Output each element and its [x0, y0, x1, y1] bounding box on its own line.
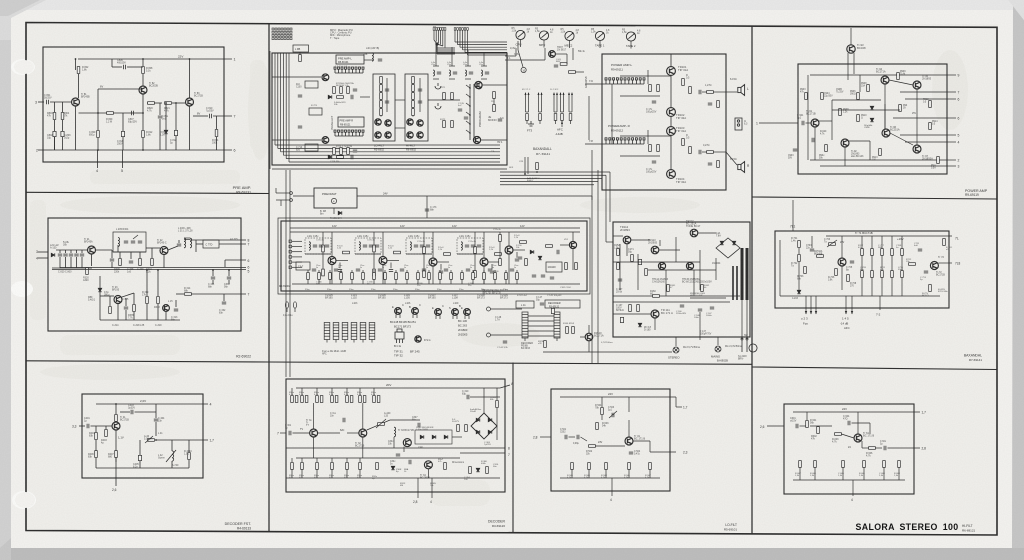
- resistor: [443, 121, 446, 128]
- wire: [861, 441, 863, 448]
- tuned circuit cluster: [355, 238, 381, 254]
- wire: [318, 432, 340, 434]
- wire: [572, 48, 574, 60]
- capacitor: [550, 277, 554, 279]
- resistor R-504: [601, 408, 604, 415]
- resistor R-502: [589, 445, 596, 448]
- punch hole: [14, 60, 34, 74]
- capacitor C-601: [796, 424, 798, 428]
- wire: [526, 111, 529, 113]
- resistor: [322, 245, 325, 252]
- resistor: [499, 235, 502, 242]
- wire: [650, 451, 676, 453]
- baxandal panel box: [775, 231, 949, 308]
- wire drop: [451, 47, 453, 66]
- capacitor: [351, 155, 353, 159]
- wire mid: [832, 109, 900, 111]
- wire: [516, 252, 518, 258]
- wire: [70, 257, 72, 268]
- wire: [613, 261, 700, 263]
- wire: [817, 425, 819, 428]
- rail wire: [500, 174, 606, 176]
- resistor: [825, 145, 828, 152]
- capacitor: [652, 161, 656, 163]
- switch contact: [466, 103, 470, 106]
- capacitor: [518, 257, 522, 259]
- wire: [416, 314, 418, 318]
- wire: [175, 300, 177, 307]
- coil: [359, 242, 360, 250]
- wire: [452, 315, 454, 319]
- wire: [814, 467, 816, 480]
- resistor tone 2b: [881, 271, 884, 278]
- wire rail 7: [460, 452, 505, 454]
- coil L-205: [118, 238, 120, 247]
- capacitor: [418, 101, 422, 103]
- transistor Tr-3x BC171B: [310, 429, 318, 437]
- arrow: [568, 92, 570, 95]
- resistor R-603: [835, 433, 842, 436]
- resistor: [505, 273, 508, 280]
- resistor: [350, 396, 353, 403]
- resistor: [474, 271, 477, 278]
- connector comb R: [334, 130, 364, 136]
- resistor R-706: [835, 269, 838, 276]
- resistor: [423, 247, 426, 254]
- wire: [351, 279, 353, 284]
- rail wire: [500, 171, 610, 173]
- wire: [505, 270, 507, 273]
- capacitor: [325, 245, 329, 247]
- capacitor C-502: [577, 435, 579, 439]
- wire: [871, 236, 873, 249]
- wire: [393, 437, 395, 448]
- capacitor: [466, 269, 470, 271]
- capacitor C-308: [129, 261, 133, 263]
- wire: [861, 277, 863, 296]
- wire: [472, 279, 474, 284]
- resistor R-60x: [863, 461, 866, 468]
- module 410: [305, 81, 318, 88]
- scan border bottom: [0, 548, 1024, 560]
- wire left vertical: [807, 75, 809, 160]
- harness wire B: [467, 30, 469, 55]
- wire: [412, 115, 414, 116]
- capacitor: [420, 245, 424, 247]
- wire: [142, 113, 144, 130]
- wire: [436, 44, 438, 50]
- resistor R-153: [572, 327, 575, 334]
- switch wire: [568, 93, 570, 112]
- resistor R-146: [566, 327, 569, 334]
- module PRE AMP-R: [338, 117, 364, 127]
- resistor tone 0: [861, 249, 864, 256]
- capacitor C-401: [87, 424, 89, 428]
- wire: [659, 240, 661, 246]
- wire: [395, 314, 397, 318]
- resistor R-703: [804, 267, 807, 274]
- wire: [461, 270, 463, 273]
- resistor 1,27Ω: [707, 91, 714, 94]
- resistor ladder: [412, 101, 415, 108]
- speaker R: [738, 162, 745, 173]
- wire: [299, 52, 301, 55]
- wire: [569, 111, 572, 113]
- wire: [798, 248, 800, 254]
- wire: [556, 53, 567, 55]
- wire: [439, 279, 441, 284]
- resistor: [701, 285, 704, 292]
- wire: [857, 412, 859, 434]
- transistor Tr-72: [930, 262, 938, 270]
- capacitor: [312, 269, 316, 271]
- wire: [136, 112, 143, 114]
- diode preomat: [338, 211, 342, 215]
- potentiometer TAPE 2: [626, 32, 635, 41]
- wire: [585, 143, 606, 145]
- scan border top: [0, 0, 1024, 10]
- transistor TR114: [658, 262, 665, 269]
- wire: [631, 239, 650, 241]
- resistor: [682, 79, 685, 86]
- wire: [483, 266, 485, 284]
- capacitor: [638, 259, 641, 264]
- harness wire B: [457, 30, 459, 45]
- wire: [464, 315, 466, 319]
- wire: [428, 99, 460, 101]
- capacitor C-63: [554, 65, 558, 67]
- module LO-FILT: [373, 74, 395, 141]
- wire: [889, 80, 913, 85]
- wire: [831, 100, 833, 140]
- diode Z-30x: [391, 466, 395, 470]
- wire bundle h: [281, 151, 500, 153]
- wire: [157, 304, 159, 320]
- wire 22V rail: [78, 58, 232, 60]
- harness wire B: [454, 30, 456, 42]
- wire: [798, 262, 800, 290]
- wire bundle: [285, 53, 287, 159]
- wire: [888, 447, 921, 449]
- wire: [190, 239, 246, 241]
- wire: [70, 250, 72, 253]
- knot fan: [434, 40, 437, 44]
- wire: [841, 266, 843, 290]
- capacitor C-332: [222, 302, 226, 304]
- resistor R-702: [798, 255, 801, 262]
- wire: [832, 99, 881, 101]
- capacitor: [426, 245, 430, 247]
- wire: [613, 313, 651, 315]
- resistor: [569, 114, 572, 121]
- wire: [938, 262, 952, 264]
- resistor ladder: [412, 109, 415, 116]
- wire 20V rail: [296, 387, 500, 389]
- switch wire: [560, 93, 562, 112]
- wire: [440, 264, 442, 270]
- resistor R-507: [649, 463, 652, 470]
- wire bottom rail: [780, 295, 940, 297]
- wire bundle h: [286, 158, 500, 160]
- resistor: [139, 259, 142, 266]
- capacitor C-149: [551, 308, 554, 313]
- diode ZF-6,8: [638, 323, 642, 327]
- capacitor: [409, 460, 411, 464]
- wire: [387, 260, 399, 262]
- capacitor: [485, 72, 489, 74]
- wire: [698, 232, 716, 234]
- punch hole: [11, 281, 33, 297]
- wire: [142, 138, 144, 150]
- transistor Tr-41 BC171B: [112, 422, 120, 430]
- circled ref 10: [521, 67, 526, 72]
- wire: [491, 334, 523, 336]
- wire: [465, 78, 471, 80]
- resistor: [331, 396, 334, 403]
- harness wire B: [459, 30, 461, 47]
- contact circle: [487, 307, 491, 311]
- wire: [292, 251, 302, 253]
- capacitor: [503, 341, 507, 343]
- wire: [360, 96, 370, 98]
- resistor: [897, 73, 900, 80]
- wire rail2: [290, 231, 580, 233]
- capacitor: [418, 89, 422, 91]
- resistor: [657, 145, 660, 152]
- wire: [585, 83, 606, 85]
- resistor: [929, 123, 932, 130]
- wire: [139, 440, 141, 455]
- wire stub: [500, 385, 510, 388]
- capacitor: [298, 126, 302, 128]
- wire: [406, 279, 408, 284]
- wire: [163, 255, 165, 269]
- resistor: [340, 87, 343, 94]
- wire: [346, 469, 348, 478]
- wire: [293, 432, 310, 434]
- wire: [105, 426, 107, 429]
- wire: [717, 337, 719, 345]
- wire: [505, 279, 507, 284]
- wire: [647, 130, 649, 144]
- wire: [767, 425, 784, 427]
- wire: [468, 315, 470, 319]
- resistor: [649, 145, 652, 152]
- punch hole: [15, 492, 35, 508]
- capacitor: [918, 249, 922, 251]
- capacitor C-83: [74, 254, 78, 256]
- resistor tone 3b: [891, 271, 894, 278]
- wire: [806, 412, 808, 420]
- resistor: [474, 247, 477, 254]
- resistor: [333, 87, 336, 94]
- wire bundle h: [283, 154, 500, 156]
- wire: [331, 469, 333, 478]
- capacitor C-803: [61, 131, 64, 136]
- capacitor trimmer: [131, 241, 135, 243]
- switch wire: [538, 93, 540, 112]
- lamp ML3 STEREO: [673, 347, 679, 353]
- wire: [423, 232, 425, 247]
- capacitor: [710, 307, 714, 309]
- wire: [380, 91, 382, 92]
- capacitor: [652, 101, 656, 103]
- capacitor: [708, 163, 712, 165]
- transistor TR117 BC251A: [690, 229, 698, 237]
- wire: [633, 440, 650, 442]
- transistor Tr-22 BF245C: [160, 247, 168, 255]
- wire: [605, 175, 607, 190]
- resistor: [929, 101, 932, 108]
- resistor: [316, 396, 319, 403]
- diode bridge1: [476, 418, 480, 422]
- capacitor C-808: [158, 116, 162, 118]
- wire: [155, 404, 157, 418]
- wire: [863, 467, 865, 480]
- wire: [611, 478, 613, 496]
- resistor: [376, 463, 379, 470]
- wire: [316, 388, 318, 395]
- wire: [518, 50, 523, 67]
- resistor: [359, 463, 362, 470]
- wire: [861, 255, 863, 270]
- wire: [871, 255, 873, 270]
- wire: [195, 240, 197, 252]
- power amp panel box: [798, 64, 947, 174]
- junction: [97, 149, 99, 151]
- wire: [142, 59, 144, 66]
- wire: [159, 103, 161, 115]
- resistor: [395, 273, 398, 280]
- node 5: [947, 134, 956, 136]
- lo-filt panel box: [551, 389, 670, 491]
- dashed matrix box: [415, 430, 452, 444]
- module DECODER R3-69132: [545, 300, 580, 308]
- divider right row 2: [752, 367, 997, 370]
- junction: [115, 403, 117, 405]
- wire: [318, 270, 320, 273]
- power amp block box: [602, 54, 726, 190]
- capacitor: [541, 275, 545, 277]
- coil: [461, 242, 462, 250]
- transistor preamp L: [322, 74, 329, 81]
- terminal arrow: [805, 311, 807, 314]
- decoder-fst panel box: [82, 394, 203, 478]
- wire: [380, 115, 382, 116]
- wire: [113, 251, 146, 253]
- coil: [410, 242, 411, 250]
- wire: [516, 270, 518, 273]
- wire: [65, 257, 67, 268]
- resistor: [295, 396, 298, 403]
- wire: [881, 277, 883, 296]
- switch contact: [466, 94, 470, 97]
- module C-710: [305, 144, 318, 151]
- capacitor C90x: [793, 149, 797, 151]
- wire: [395, 279, 397, 284]
- capacitor C-305: [110, 259, 114, 261]
- resistor: [565, 263, 568, 270]
- transistor TR107: [429, 258, 437, 266]
- connector comb amp L: [605, 78, 645, 84]
- transistor TR101 TIP 31A: [667, 67, 676, 76]
- wire: [329, 279, 331, 284]
- transistor Tr-81 BF245B: [72, 98, 80, 106]
- terminal arrow: [815, 311, 817, 314]
- wire: [380, 99, 382, 100]
- wire: [362, 270, 364, 273]
- pre-amp panel box: [43, 47, 224, 162]
- wire: [99, 276, 101, 320]
- wire: [613, 235, 623, 237]
- transistor Tr-95 2N1893: [913, 81, 921, 89]
- transistor TR102 TIP 32A: [667, 108, 676, 117]
- resistor C-606: [883, 461, 886, 468]
- wire: [188, 440, 190, 452]
- wire: [91, 425, 113, 427]
- resistor: [305, 396, 308, 403]
- wire 2.0V rail: [96, 403, 208, 405]
- wire: [291, 388, 293, 395]
- junction: [189, 58, 191, 60]
- arrow: [556, 92, 558, 95]
- node 2: [947, 159, 956, 161]
- resistor R-802: [77, 67, 80, 74]
- wire: [544, 48, 546, 60]
- resistor tone 3: [891, 249, 894, 256]
- wire long: [591, 150, 593, 363]
- resistor: [301, 396, 304, 403]
- junction: [175, 102, 177, 104]
- potentiometer MPU: [539, 31, 548, 40]
- wire bundle h: [275, 144, 500, 146]
- wire: [188, 460, 190, 468]
- resistor: [929, 285, 932, 292]
- resistor ladder: [412, 85, 415, 92]
- wire rail 2: [810, 159, 947, 161]
- resistor: [937, 157, 940, 164]
- resistor: [682, 139, 685, 146]
- cap legend: [285, 302, 288, 312]
- wire: [301, 458, 303, 462]
- wire: [111, 59, 113, 67]
- rail wire: [500, 177, 602, 179]
- junction: [97, 112, 99, 114]
- wire: [122, 293, 134, 297]
- capacitor: [385, 101, 389, 103]
- diode: [476, 468, 480, 472]
- wire: [628, 420, 630, 437]
- core line: [184, 237, 190, 239]
- wire: [905, 141, 947, 143]
- wire: [142, 74, 144, 86]
- transistor: [385, 120, 391, 126]
- wire: [891, 277, 893, 296]
- wire: [432, 266, 434, 284]
- connector column IF: [289, 240, 292, 243]
- resistor: [301, 463, 304, 470]
- capacitor C-705: [850, 261, 854, 263]
- section outer line v: [269, 51, 271, 169]
- capacitor C-806: [124, 65, 126, 69]
- wire: [112, 66, 122, 68]
- wire long: [597, 170, 599, 363]
- capacitor: [400, 269, 404, 271]
- wire: [196, 243, 203, 245]
- wire: [875, 447, 882, 449]
- resistor: [879, 149, 882, 156]
- transistor Tr-94 BC171A: [881, 76, 889, 84]
